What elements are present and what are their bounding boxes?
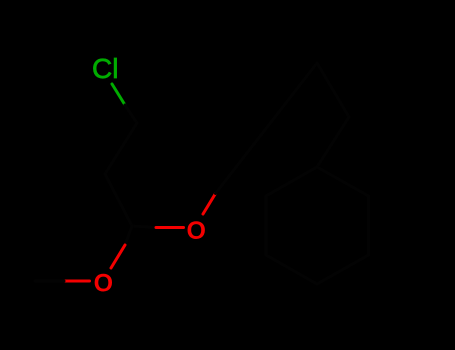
bond C3-O2 (oxygen half, red) — [111, 245, 125, 268]
svg-text:Cl: Cl — [92, 53, 118, 84]
bond C3-O2 (carbon half) — [125, 226, 132, 245]
bond Cl-C1 (chlorine half, green) — [112, 84, 125, 105]
bond C1-C2 — [105, 123, 137, 174]
bond O1-C4 (oxygen half, red) — [203, 194, 216, 215]
bond C3-O1 (oxygen half, red) — [156, 226, 184, 229]
bond Cl-C1 (carbon half) — [125, 105, 137, 123]
bond C5-ring — [317, 117, 349, 167]
svg-text:O: O — [94, 270, 113, 298]
svg-text:O: O — [187, 217, 206, 245]
bond C3-O1 (carbon half) — [132, 226, 156, 228]
bond C4-C5 — [317, 63, 349, 117]
cyclohexane ring — [266, 167, 369, 284]
bond O2-CH3 (oxygen half, red) — [64, 280, 90, 283]
bond O1-C4 long diagonal (carbon part) — [216, 63, 318, 194]
bond C2-C3 — [105, 174, 132, 226]
bond O2-CH3 (carbon half) — [35, 280, 64, 283]
